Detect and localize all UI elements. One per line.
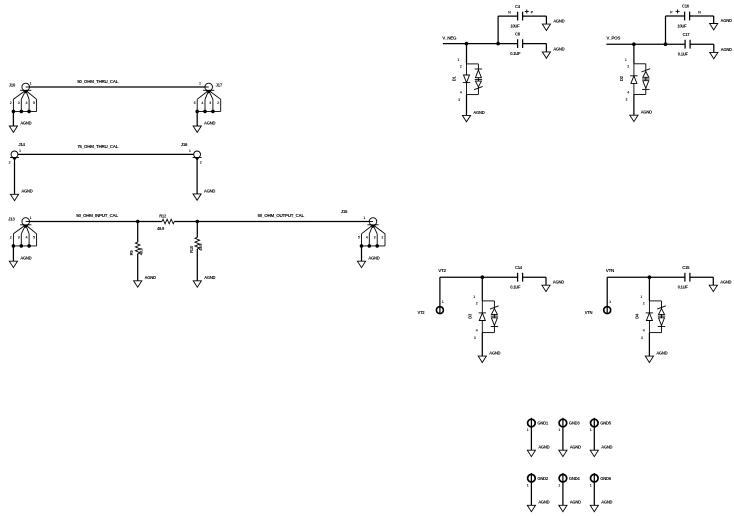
svg-text:50_OHM_INPUT_CAL: 50_OHM_INPUT_CAL — [76, 213, 118, 218]
ground — [527, 445, 549, 457]
connector J15 — [341, 209, 385, 248]
test point GND6 — [590, 474, 612, 487]
wire J16 ground — [196, 158, 198, 194]
svg-text:R12: R12 — [159, 214, 167, 219]
svg-text:1: 1 — [30, 82, 32, 86]
ground — [710, 18, 732, 30]
node V_POS junction 2 — [664, 42, 668, 46]
svg-text:2: 2 — [217, 101, 219, 105]
svg-text:AGND: AGND — [20, 256, 31, 261]
svg-text:75_OHM_THRU_CAL: 75_OHM_THRU_CAL — [77, 144, 119, 149]
wire net 50_OHM_THRU_CAL — [26, 86, 209, 88]
test point GND4 — [558, 474, 580, 487]
wire net 50_OHM_OUTPUT_CAL — [174, 221, 373, 223]
test point GND2 — [527, 474, 549, 487]
wire GND5 to ground — [593, 418, 595, 450]
svg-text:1: 1 — [527, 483, 529, 487]
test point GND3 — [558, 419, 580, 432]
svg-text:1: 1 — [30, 216, 32, 220]
connector J16 — [181, 142, 202, 164]
svg-text:5: 5 — [33, 101, 35, 105]
test point VT2 — [418, 300, 444, 315]
svg-text:V_NEG: V_NEG — [442, 35, 457, 40]
svg-text:AGND: AGND — [368, 256, 379, 261]
wire J13 ground — [12, 246, 14, 261]
wire J17 ground — [196, 111, 198, 126]
svg-text:J15: J15 — [341, 209, 348, 214]
wire D3 to ground — [481, 333, 483, 357]
svg-text:1: 1 — [558, 483, 560, 487]
svg-text:1: 1 — [363, 216, 365, 220]
test point GND1 — [527, 419, 549, 432]
svg-text:VT2: VT2 — [418, 310, 426, 315]
svg-text:2: 2 — [10, 101, 12, 105]
svg-text:AGND: AGND — [145, 275, 156, 280]
svg-text:0.1UF: 0.1UF — [678, 52, 689, 57]
resistor R10 — [189, 237, 203, 253]
capacitor C14 — [510, 265, 522, 290]
wire to D4 — [648, 277, 650, 301]
wire C15 to ground — [690, 276, 713, 278]
svg-text:C14: C14 — [515, 265, 523, 270]
ground — [559, 500, 581, 512]
svg-text:4: 4 — [201, 101, 203, 105]
svg-text:50_OHM_THRU_CAL: 50_OHM_THRU_CAL — [77, 79, 119, 84]
ground — [193, 188, 215, 200]
wire GND4 to ground — [562, 473, 564, 505]
connector J17 — [194, 82, 223, 114]
ground — [527, 500, 549, 512]
ground — [9, 120, 31, 132]
wire net VT2 — [440, 276, 518, 278]
ground — [542, 280, 564, 292]
diode D1 — [452, 58, 483, 102]
svg-text:AGND: AGND — [601, 445, 612, 450]
svg-text:AGND: AGND — [553, 19, 564, 24]
svg-text:3: 3 — [18, 101, 20, 105]
ground — [709, 280, 731, 292]
svg-text:AGND: AGND — [656, 351, 667, 356]
svg-text:AGND: AGND — [204, 120, 215, 125]
svg-text:3: 3 — [209, 101, 211, 105]
wire D1 to ground — [466, 95, 468, 116]
svg-text:AGND: AGND — [20, 120, 31, 125]
svg-text:3: 3 — [374, 235, 376, 239]
test point VTN — [585, 300, 611, 315]
ground — [590, 445, 612, 457]
wire net 75_OHM_THRU_CAL — [15, 153, 198, 155]
svg-text:1: 1 — [609, 300, 611, 304]
svg-text:AGND: AGND — [538, 445, 549, 450]
svg-text:VTN: VTN — [585, 310, 593, 315]
wire D2 to ground — [633, 95, 635, 116]
svg-text:AGND: AGND — [721, 47, 732, 52]
svg-text:AGND: AGND — [489, 351, 500, 356]
svg-text:GND4: GND4 — [569, 476, 580, 481]
svg-text:AGND: AGND — [538, 500, 549, 505]
wire GND2 to ground — [530, 473, 532, 505]
svg-text:5: 5 — [33, 235, 35, 239]
svg-text:1: 1 — [590, 428, 592, 432]
svg-text:C17: C17 — [683, 32, 691, 37]
wire J15 ground — [361, 246, 363, 261]
svg-text:AGND: AGND — [570, 445, 581, 450]
capacitor C8 — [510, 31, 522, 56]
wire J14 ground — [14, 158, 16, 194]
node V_NEG junction 1 — [465, 42, 469, 46]
wire GND6 to ground — [593, 473, 595, 505]
svg-text:J10: J10 — [9, 82, 16, 87]
svg-text:R10: R10 — [189, 245, 194, 253]
capacitor C17 — [678, 32, 690, 57]
wire to D1 — [466, 44, 468, 64]
capacitor C16 — [670, 4, 701, 29]
wire D4 to ground — [648, 333, 650, 357]
svg-text:AGND: AGND — [570, 500, 581, 505]
svg-text:2: 2 — [200, 161, 202, 165]
svg-text:4: 4 — [26, 235, 28, 239]
node input junction — [136, 220, 140, 224]
wire R10 to net — [196, 222, 198, 238]
ground — [542, 46, 564, 58]
wire GND1 to ground — [530, 418, 532, 450]
svg-text:AGND: AGND — [204, 275, 215, 280]
node V_NEG junction 2 — [496, 42, 500, 46]
svg-text:AGND: AGND — [720, 280, 731, 285]
wire R9 to ground — [137, 254, 139, 281]
svg-text:AGND: AGND — [601, 500, 612, 505]
wire C16 to ground — [690, 15, 714, 17]
diode D2 — [619, 58, 650, 102]
svg-text:49.9: 49.9 — [139, 247, 144, 255]
svg-text:VT2: VT2 — [438, 268, 446, 273]
ground — [357, 256, 379, 268]
test point GND5 — [590, 419, 612, 432]
ground — [542, 19, 564, 31]
node VT2 junction — [481, 275, 485, 279]
svg-text:J16: J16 — [181, 142, 188, 147]
svg-text:AGND: AGND — [721, 18, 732, 23]
ground — [462, 110, 484, 122]
svg-text:1: 1 — [199, 82, 201, 86]
svg-text:VTN: VTN — [606, 268, 614, 273]
wire C14 to ground — [523, 276, 546, 278]
wire GND3 to ground — [562, 418, 564, 450]
wire J10 ground — [12, 111, 14, 126]
svg-text:1: 1 — [442, 300, 444, 304]
resistor R9 — [129, 242, 143, 255]
wire net 50_OHM_INPUT_CAL — [26, 221, 162, 223]
svg-text:5: 5 — [358, 235, 360, 239]
svg-text:GND5: GND5 — [600, 421, 611, 426]
wire C4 to ground — [523, 15, 547, 17]
ground — [645, 351, 667, 363]
wire net V_NEG — [443, 43, 518, 45]
svg-text:AGND: AGND — [553, 46, 564, 51]
svg-text:10UF: 10UF — [677, 24, 687, 29]
svg-text:GND3: GND3 — [569, 421, 580, 426]
connector J13 — [8, 216, 37, 248]
svg-text:1: 1 — [19, 149, 21, 153]
svg-text:C15: C15 — [682, 265, 690, 270]
node V_POS junction 1 — [632, 42, 636, 46]
svg-text:1: 1 — [590, 483, 592, 487]
svg-text:J13: J13 — [8, 216, 15, 221]
svg-text:0.1UF: 0.1UF — [510, 285, 521, 290]
ground — [193, 120, 215, 132]
ground — [134, 275, 156, 287]
svg-text:AGND: AGND — [473, 110, 484, 115]
ground — [9, 256, 31, 268]
svg-text:50_OHM_OUTPUT_CAL: 50_OHM_OUTPUT_CAL — [258, 213, 305, 218]
svg-text:49.9: 49.9 — [198, 243, 203, 251]
capacitor C4 — [508, 4, 533, 29]
wire R10 to ground — [196, 249, 198, 281]
svg-text:2: 2 — [10, 235, 12, 239]
resistor R12 — [157, 214, 174, 231]
node output junction — [196, 220, 200, 224]
wire C8 to ground — [523, 43, 547, 45]
svg-text:AGND: AGND — [21, 189, 32, 194]
wire net V_POS — [606, 43, 685, 45]
diode D4 — [634, 295, 665, 340]
ground — [10, 189, 32, 201]
svg-text:1: 1 — [558, 428, 560, 432]
wire to D3 — [481, 277, 483, 301]
svg-text:J14: J14 — [18, 142, 25, 147]
ground — [590, 500, 612, 512]
wire to D2 — [633, 44, 635, 64]
ground — [559, 445, 581, 457]
svg-text:3: 3 — [18, 235, 20, 239]
wire to C16 — [665, 16, 667, 44]
svg-text:GND1: GND1 — [537, 421, 548, 426]
svg-text:1: 1 — [189, 149, 191, 153]
svg-text:C16: C16 — [682, 4, 690, 9]
wire to C4 — [497, 16, 499, 43]
capacitor C15 — [678, 265, 690, 290]
node VTN junction — [648, 275, 652, 279]
wire C17 to ground — [690, 43, 714, 45]
svg-text:10UF: 10UF — [510, 24, 520, 29]
wire R9 to net — [137, 222, 139, 243]
svg-text:1: 1 — [527, 428, 529, 432]
wire net VTN — [607, 276, 685, 278]
svg-text:AGND: AGND — [204, 188, 215, 193]
diode D3 — [467, 295, 498, 340]
svg-text:AGND: AGND — [553, 280, 564, 285]
svg-text:AGND: AGND — [641, 110, 652, 115]
svg-text:0.1UF: 0.1UF — [510, 51, 521, 56]
svg-text:4: 4 — [366, 235, 368, 239]
svg-text:J17: J17 — [216, 82, 223, 87]
connector J10 — [9, 82, 37, 114]
svg-text:49.9: 49.9 — [157, 226, 165, 231]
ground — [630, 110, 652, 122]
svg-text:2: 2 — [381, 235, 383, 239]
svg-text:2: 2 — [9, 161, 11, 165]
svg-text:V_POS: V_POS — [606, 35, 620, 40]
svg-text:4: 4 — [26, 101, 28, 105]
svg-text:GND6: GND6 — [600, 476, 611, 481]
svg-text:GND2: GND2 — [537, 476, 548, 481]
ground — [193, 275, 215, 287]
ground — [478, 351, 500, 363]
svg-text:5: 5 — [194, 101, 196, 105]
ground — [710, 47, 732, 59]
svg-text:0.1UF: 0.1UF — [678, 285, 689, 290]
connector J14 — [9, 142, 26, 164]
